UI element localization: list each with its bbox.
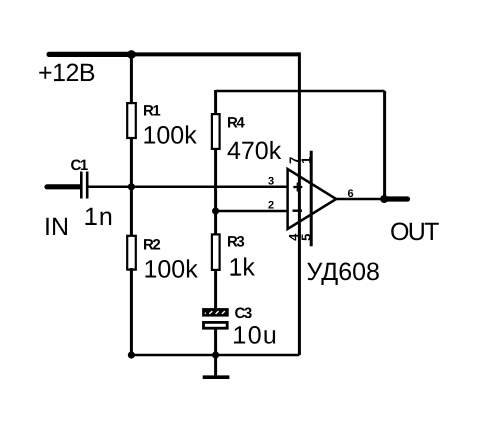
svg-text:R4: R4 — [227, 115, 245, 132]
wire offset null pins 1/5 line — [310, 151, 313, 247]
wire inverting input line (pin 2) — [216, 210, 288, 213]
wire R2 top — [130, 187, 133, 237]
wire feedback vertical — [383, 91, 386, 199]
svg-text:100k: 100k — [143, 122, 198, 150]
svg-text:R2: R2 — [143, 237, 160, 254]
wire R1 top — [130, 54, 133, 103]
wire op-amp output — [336, 198, 385, 201]
power terminal +12V thick lead — [49, 52, 134, 57]
svg-text:3: 3 — [268, 176, 274, 188]
wire R4 bottom to inverting node — [214, 148, 217, 212]
node R2/ground rail junction — [128, 351, 135, 358]
wire R3 top — [214, 211, 217, 235]
svg-text:100k: 100k — [144, 256, 199, 284]
serif of digit 1 in 100k R1 — [145, 142, 154, 144]
svg-text:1: 1 — [298, 157, 313, 164]
svg-text:+12В: +12В — [38, 59, 95, 87]
resistor R2 — [127, 236, 136, 270]
capacitor C3 bottom plate — [204, 322, 228, 328]
svg-text:IN: IN — [44, 213, 69, 241]
svg-text:УД608: УД608 — [307, 258, 380, 286]
serif of digit 1 in 100k R2 — [146, 276, 155, 278]
node R4/R3/pin2 junction — [212, 207, 219, 214]
resistor R4 — [212, 114, 220, 149]
ground — [214, 355, 217, 375]
wire R4 top — [214, 90, 217, 115]
serif of digit 1 in +12V — [54, 79, 63, 81]
svg-text:C3: C3 — [235, 305, 252, 322]
node output junction — [380, 195, 388, 203]
wire V+ pin 7 line (power rail down through op-amp to pin 4 and ground rail) — [298, 52, 301, 355]
op-amp U1 triangle — [288, 169, 337, 229]
serif of digit 1 in 1n — [85, 223, 95, 225]
node R1/R2/C1 junction — [128, 183, 135, 190]
svg-text:R3: R3 — [227, 234, 244, 251]
svg-text:5: 5 — [299, 234, 314, 241]
serif of digit 1 in 1k — [231, 274, 240, 276]
wire noninverting input line (pin 3) — [89, 186, 288, 189]
wire ground rail — [131, 354, 299, 357]
svg-text:1n: 1n — [84, 203, 114, 231]
wire R2 bottom to ground rail — [130, 268, 133, 355]
output terminal thick lead — [384, 196, 408, 201]
wire power rail — [131, 52, 299, 56]
svg-text:R1: R1 — [143, 103, 160, 120]
resistor R1 — [127, 103, 136, 138]
svg-text:10u: 10u — [233, 322, 279, 350]
node C3/ground junction — [212, 351, 219, 358]
svg-text:C1: C1 — [71, 157, 88, 174]
svg-text:470k: 470k — [227, 137, 282, 165]
op-amp minus input mark — [293, 209, 303, 211]
wire R3 bottom to C3 — [214, 269, 217, 309]
svg-text:1k: 1k — [229, 254, 256, 282]
input terminal thick lead — [47, 184, 80, 189]
wire C3 bottom to ground rail — [214, 328, 217, 355]
serif of digit 1 in 10u — [234, 342, 244, 344]
resistor R3 — [212, 234, 220, 270]
wire R1 bottom to input node — [130, 138, 133, 188]
op-amp plus input mark — [293, 186, 302, 188]
svg-text:2: 2 — [268, 200, 274, 212]
svg-text:OUT: OUT — [390, 218, 439, 246]
capacitor C3 (electrolytic, hatched top plate) — [202, 308, 229, 317]
wire feedback top line — [216, 90, 385, 93]
capacitor C1 — [80, 172, 83, 199]
node power/R1 junction — [127, 50, 136, 59]
